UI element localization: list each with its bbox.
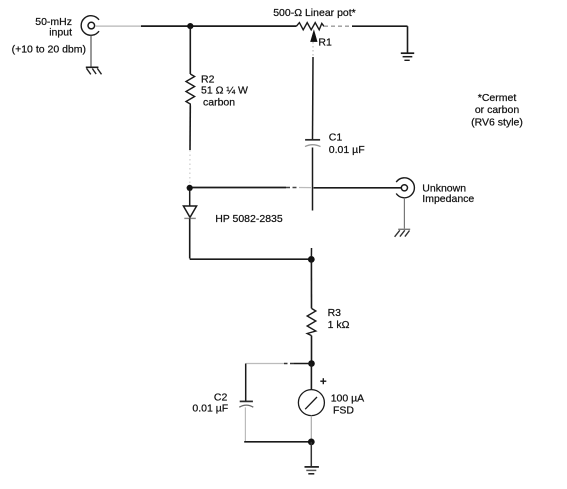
ground chassis at J2 [395,229,411,237]
wire node C to R3 [310,259,312,308]
wire C2 to bottom row [244,407,246,441]
svg-text:FSD: FSD [333,405,354,417]
ground earth bottom [305,467,319,474]
label 100 uA FSD [331,393,365,417]
wire node D to meter [310,364,312,390]
label R2 51 ohm 1/4 W carbon [201,74,248,109]
svg-text:or carbon: or carbon [475,104,520,116]
label plus polarity [320,378,326,384]
svg-text:(+10 to 20 dbm): (+10 to 20 dbm) [12,44,86,56]
wire node E to ground [310,442,312,466]
ground chassis at J1 [86,67,102,74]
connector J2 Unknown Impedance [396,178,414,198]
svg-text:51 Ω ¼ W: 51 Ω ¼ W [201,85,248,97]
svg-text:R3: R3 [328,307,342,319]
svg-text:Impedance: Impedance [422,193,474,205]
wire meter to node E [310,416,312,442]
node D junction [308,360,315,367]
wire J1 to ground [90,35,92,67]
svg-text:carbon: carbon [203,96,235,108]
svg-text:(RV6 style): (RV6 style) [471,116,523,128]
svg-text:*Cermet: *Cermet [478,92,517,104]
wire J2 to ground [403,198,405,229]
node B junction [187,185,193,191]
ground earth at R1 [401,53,414,60]
svg-text:500-Ω Linear pot*: 500-Ω Linear pot* [273,7,356,19]
label C1 0.01 uF [329,131,365,156]
node C junction [308,256,315,263]
node A junction [187,23,193,29]
wire node B to crossing [193,187,287,189]
label C2 0.01 uF [192,391,228,414]
label 50-mHz input (+10 to 20 dbm) [12,16,86,56]
svg-text:input: input [49,27,72,39]
wire crossing to J2 [314,187,402,189]
meter M1 100 uA FSD [298,390,324,416]
svg-text:C1: C1 [329,131,343,143]
svg-text:1 kΩ: 1 kΩ [328,319,350,331]
label R3 1 kOhm [328,307,350,331]
connector J1 50-MHz input [81,16,99,36]
wire R1 right terminal to ground [324,25,352,27]
wire C1 to crossing and below [312,148,314,211]
wire node A to R2 [189,26,191,74]
wire R3 to node D [311,336,313,364]
label Cermet note [471,92,523,129]
wire D1 to bottom row [189,218,191,258]
svg-text:HP 5082-2835: HP 5082-2835 [215,213,283,225]
resistor R2 [186,74,195,106]
wire R2 to node B [189,106,191,151]
resistor R3 [307,308,316,335]
svg-text:C2: C2 [214,391,228,403]
node E junction [308,439,315,446]
diode D1 HP 5082-2835 [183,206,196,217]
label Unknown Impedance [422,183,474,206]
svg-text:0.01 µF: 0.01 µF [329,144,365,156]
wire diode row to node C [190,258,312,260]
wire R1 wiper to C1 [312,42,314,57]
wire bottom row C2 to node E [244,441,311,443]
potentiometer R1 wiper arrow [311,30,318,41]
capacitor C2 [240,400,253,402]
wire node D to C2 [294,363,312,365]
svg-text:0.01 µF: 0.01 µF [192,403,228,415]
wire J1 to node A [96,25,141,27]
capacitor C1 [305,139,320,141]
svg-text:100 µA: 100 µA [331,393,365,405]
svg-text:R1: R1 [318,37,332,49]
diode D1 wire from node B [189,190,191,206]
potentiometer R1 body [297,23,325,30]
